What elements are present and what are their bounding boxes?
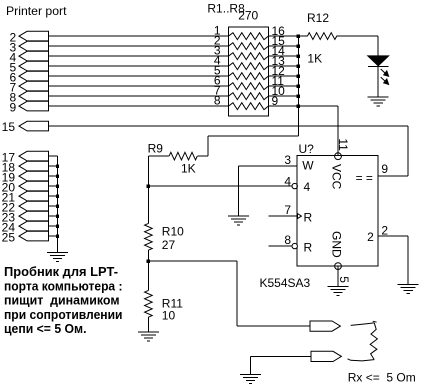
resistor R4 zigzag [229,63,269,70]
resistor R11 value 10 [162,308,176,322]
junction on bus row 5 [297,74,300,77]
pin number 16 (network right) [272,24,286,38]
pin number 1 (network left) [214,24,221,38]
probe connector 2 [311,351,341,361]
svg-text:R: R [304,210,313,224]
wire vertical bus (network outputs) [297,36,299,136]
junction pin 25 on ground bus [56,234,59,237]
pin number 9 [381,162,388,176]
resistor R5 zigzag [229,73,269,80]
svg-text:5: 5 [337,276,351,283]
connector pin 24 of printer port [2,220,49,234]
connector pin 22 of printer port [2,200,49,214]
wire IC pin 8 stub [269,245,293,247]
connector pin 17 of printer port [2,150,49,164]
pin name GND (rotated) [330,231,344,258]
pin number 10 (network right) [272,84,286,98]
resistor R9 [169,152,197,160]
connector pin 5 of printer port [10,60,49,74]
svg-text:порта компьютера :: порта компьютера : [4,278,123,293]
LED light arrow 2 [381,77,389,84]
svg-text:8: 8 [284,233,291,247]
wire network pin 9 to bus and pin 11 column [268,105,338,107]
resistor R10 label [162,225,184,239]
connector pin 4 of printer port [10,50,49,64]
wire pin 6 to resistor network pin 5 [49,75,229,77]
connector pin 21 of printer port [2,190,49,204]
resistor R2 zigzag [229,43,269,50]
junction on bus row 1 [297,34,300,37]
wire pin 24 to ground bus [49,225,58,227]
wire pin 25 to ground bus [49,235,58,237]
wire network pin 10 to bus [268,95,298,97]
wire pin 7 to resistor network pin 6 [49,85,229,87]
pin number 4 (network left) [214,54,221,68]
pin number 7 (network left) [214,84,221,98]
ground (pin 3 W) [228,216,249,225]
svg-text:VCC: VCC [330,164,344,190]
svg-text:7: 7 [284,203,291,217]
svg-text:15: 15 [2,120,16,134]
junction pin 20 on ground bus [56,184,59,187]
wire pin 19 to ground bus [49,175,58,177]
wire node A to R10 [147,186,149,223]
pin number 4 [284,174,291,188]
junction node B [147,259,150,262]
ground (pins 17-25) [47,252,68,261]
LED D1 triangle and cathode bar [368,56,389,67]
ground (probe 2) [240,374,261,383]
pin name == (pin 9) [356,171,373,185]
wire R9 left [148,155,169,157]
pin 8 bubble [292,243,297,248]
pin number 8 (network left) [214,94,221,108]
svg-text:GND: GND [330,231,344,258]
wire bus row 8 to IC pin 11 [337,106,339,156]
probe connector 1 [310,321,340,331]
wire pin 8 to resistor network pin 7 [49,95,229,97]
wire network pin 15 to bus [268,45,298,47]
wire node B to probe 1 [148,261,310,326]
svg-text:25: 25 [2,230,16,244]
wire network pin 13 to bus [268,65,298,67]
resistor R10 [145,223,153,250]
svg-text:27: 27 [162,238,176,252]
svg-text:R12: R12 [307,11,329,25]
wire R11 to ground [147,317,149,332]
resistor R9 value 1K [181,161,196,175]
pin 7 arrow marker [298,214,302,219]
svg-text:2: 2 [367,230,374,244]
junction pin 18 on ground bus [56,164,59,167]
svg-text:10: 10 [162,308,176,322]
wire pin 23 to ground bus [49,215,58,217]
pin number 8 [284,233,291,247]
op-amp U1 comparator box [297,156,378,267]
svg-text:8: 8 [214,94,221,108]
svg-text:9: 9 [10,100,17,114]
resistor R3 zigzag [229,53,269,60]
resistor R7 zigzag [229,93,269,100]
junction on bus row 6 [297,84,300,87]
wire pin 9 to resistor network pin 8 [49,105,229,107]
pin number 5 (rotated) [337,276,351,283]
connector pin 15 of printer port [2,120,49,134]
svg-text:270: 270 [238,9,258,23]
resistor R1 zigzag [229,33,269,40]
junction pin 23 on ground bus [56,214,59,217]
connector pin 2 of printer port [10,30,49,44]
wire bus to R12 [298,35,307,37]
wire pin 21 to ground bus [49,195,58,197]
wire IC pin 2 to ground [378,236,408,285]
junction on bus row 8 [297,104,300,107]
junction on bus row 2 [297,44,300,47]
pin 5 circle [335,263,342,270]
pin number 13 (network right) [272,54,286,68]
pin number 2 (right) [381,223,388,237]
ground (LED) [368,97,389,106]
wire pin 18 to ground bus [49,165,58,167]
svg-text:11: 11 [336,138,350,151]
wire pin 3 to resistor network pin 2 [49,45,229,47]
connector pin 23 of printer port [2,210,49,224]
wire IC pin 3 (W) stub [239,165,298,167]
pin number 11 (network right) [272,74,285,88]
svg-text:3: 3 [284,153,291,167]
junction pin 22 on ground bus [56,204,59,207]
resistor Rx (hand drawn) [348,321,378,361]
op-amp U1 part number K554SA3 [260,276,311,290]
junction on bus row 3 [297,54,300,57]
pin number 14 (network right) [272,44,286,58]
resistor network value 270 [238,9,258,23]
resistor R11 [145,290,153,317]
resistor network label R1..R8 [207,2,245,16]
pin name W [302,159,314,173]
svg-text:4: 4 [284,174,291,188]
pin number 3 (network left) [214,44,221,58]
svg-text:K554SA3: K554SA3 [260,276,311,290]
junction node A [147,184,150,187]
resistor network R1..R8 box [229,27,269,116]
pin number 3 [284,153,291,167]
resistor R12 value 1K [307,52,322,66]
wire pin 15 to IC pin 9 [49,126,409,176]
ground (pin 2) [398,285,419,294]
pin number 7 [284,203,291,217]
connector pin 20 of printer port [2,180,49,194]
junction on bus row 4 [297,64,300,67]
ground (pin 5) [328,286,349,295]
LED light arrow 1 [381,69,389,76]
wire IC pin 5 to ground [337,266,339,286]
resistor R12 label [307,11,329,25]
wire pin 22 to ground bus [49,205,58,207]
resistor R12 [307,33,336,40]
connector pin 19 of printer port [2,170,49,184]
wire ground bus (pins 17-25) [57,156,59,252]
resistor R10 value 27 [162,238,176,252]
ground (R11) [138,332,159,341]
svg-text:W: W [302,159,314,173]
pin 11 circle [335,153,342,160]
svg-text:R: R [304,241,313,255]
svg-text:4: 4 [304,180,311,194]
svg-text:= =: = = [356,171,373,185]
junction pin 19 on ground bus [56,174,59,177]
svg-text:9: 9 [381,162,388,176]
connector pin 3 of printer port [10,40,49,54]
wire network pin 16 to bus [268,35,298,37]
resistor R8 zigzag [229,103,269,110]
pin number 2 (network left) [214,34,221,48]
op-amp U1 refdes U? [299,142,315,156]
wire R10 to node B [147,250,149,261]
pin number 11 (rotated) [336,138,350,151]
pin name VCC (rotated) [330,164,344,190]
svg-text:при сопротивлении: при сопротивлении [4,307,123,322]
pin 4 bubble [292,183,297,188]
junction pin 21 on ground bus [56,194,59,197]
pin number 6 (network left) [214,74,221,88]
wire pin 4 to resistor network pin 3 [49,55,229,57]
svg-text:1K: 1K [307,52,322,66]
wire network pin 14 to bus [268,55,298,57]
connector pin 8 of printer port [10,90,49,104]
svg-text:U?: U? [299,142,315,156]
pin name 4 (inside) [304,180,311,194]
wire probe 2 to ground [251,356,312,374]
pin name 2 (inside) [367,230,374,244]
wire R9 down to node A [147,156,149,186]
wire R12 to LED [337,36,379,56]
wire pin 20 to ground bus [49,185,58,187]
note text (Russian description) [4,264,123,336]
junction on bus row 7 [297,94,300,97]
connector pin 6 of printer port [10,70,49,84]
pin number 15 (network right) [272,34,286,48]
resistor R6 zigzag [229,83,269,90]
svg-text:2: 2 [381,223,388,237]
wire network pin 11 to bus [268,85,298,87]
wire pin 2 to resistor network pin 1 [49,35,229,37]
connector pin 7 of printer port [10,80,49,94]
label Rx <= 5 Om [348,370,416,384]
connector pin 9 of printer port [10,100,49,114]
resistor R11 label [162,297,183,311]
svg-text:1K: 1K [181,161,196,175]
wire IC pin 7 stub [269,215,298,217]
connector pin 25 of printer port [2,230,49,244]
svg-text:R9: R9 [148,142,164,156]
svg-text:R10: R10 [162,225,184,239]
pin name R (pin 7) [304,210,313,224]
pin number 12 (network right) [272,64,286,78]
wire node B to R11 [147,261,149,290]
wire pin 17 to ground bus [49,155,58,157]
svg-text:Printer port: Printer port [6,4,67,18]
svg-text:цепи <= 5 Ом.: цепи <= 5 Ом. [4,321,87,336]
connector pin 18 of printer port [2,160,49,174]
svg-text:пищит динамиком: пищит динамиком [4,293,120,308]
svg-text:Пробник для LPT-: Пробник для LPT- [4,264,118,279]
wire node A to IC pin 4 [148,185,292,187]
wire pin 5 to resistor network pin 4 [49,65,229,67]
svg-text:Rx <= 5 Om: Rx <= 5 Om [348,370,416,384]
junction pin 24 on ground bus [56,224,59,227]
pin number 9 (network right) [272,94,279,108]
wire pin 3 to ground [238,166,240,216]
title Printer port [6,4,67,18]
wire network pin 12 to bus [268,75,298,77]
resistor R9 label [148,142,164,156]
pin name R (pin 8) [304,241,313,255]
pin number 5 (network left) [214,64,221,78]
wire R9 to bus bottom [197,136,298,156]
wire LED cathode to ground [377,67,379,97]
